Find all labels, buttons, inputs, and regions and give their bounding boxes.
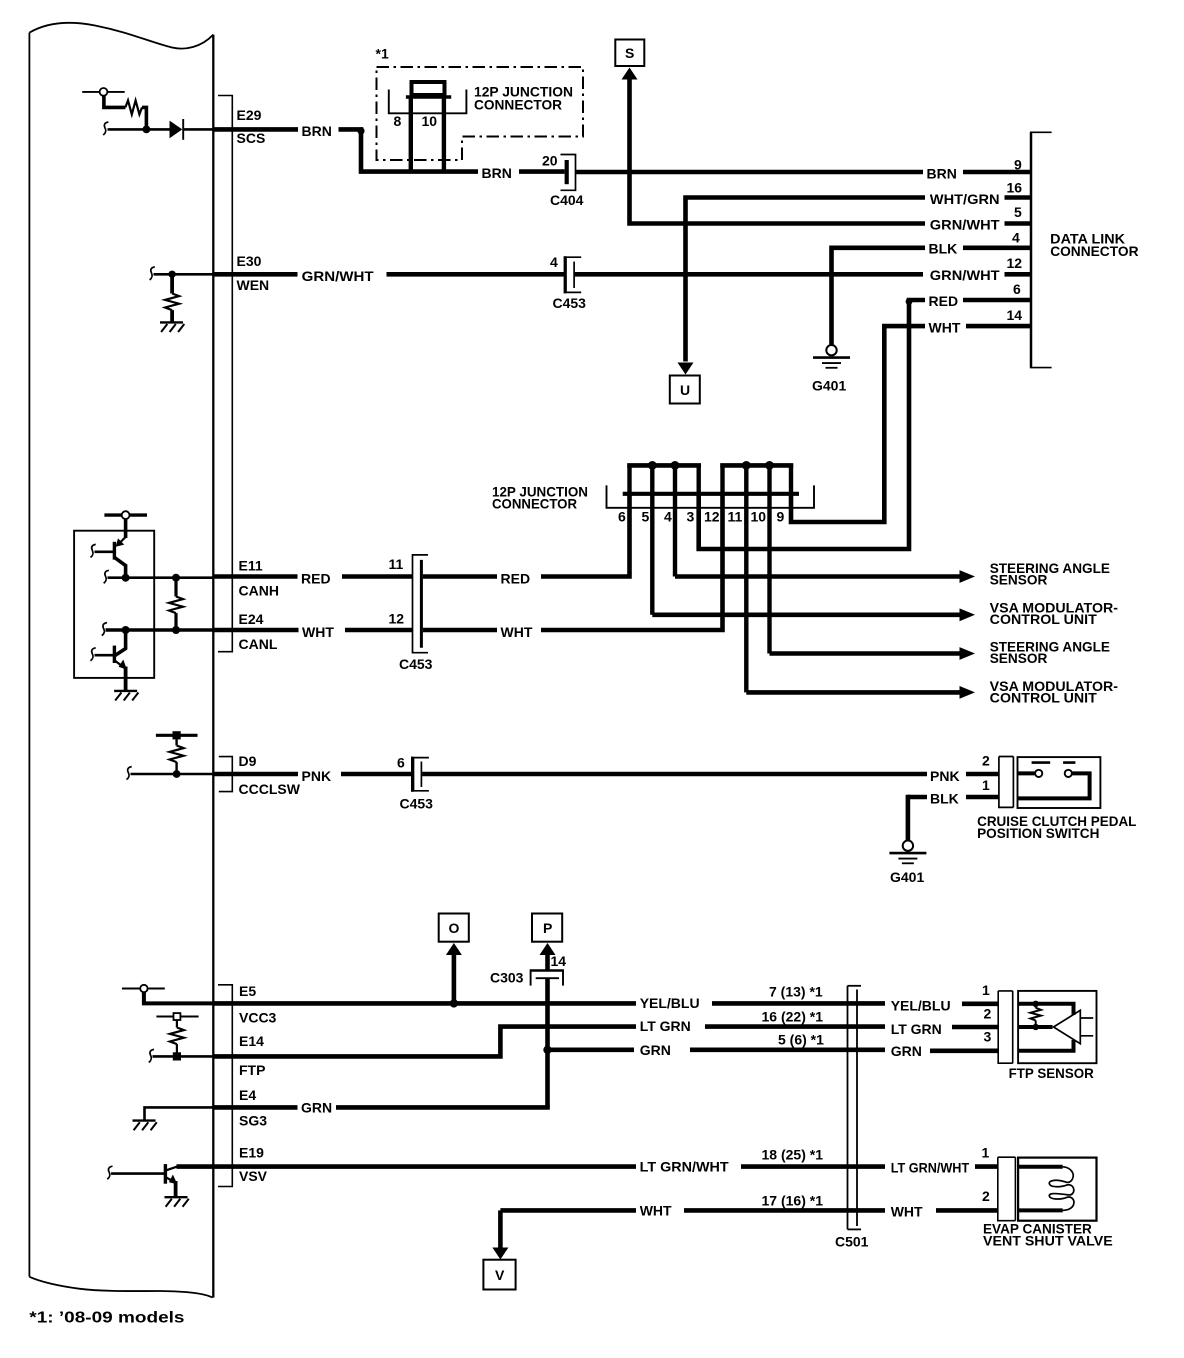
svg-text:G401: G401 [890, 869, 924, 885]
E4 chassis ground [133, 1121, 157, 1131]
label STEERING ANGLE SENSOR 1 [990, 560, 1110, 587]
wire YEL/BLU to FTP sensor pin 1 [962, 1001, 998, 1006]
E19 Q3 collector [166, 1166, 177, 1170]
connector C303 bracket [531, 971, 563, 986]
wire PNK C453 to cruise switch [422, 772, 927, 777]
D9 pull-up resistor upper lead [175, 735, 177, 745]
svg-text:SENSOR: SENSOR [990, 650, 1048, 666]
svg-text:6: 6 [397, 755, 405, 771]
svg-text:18 (25) *1: 18 (25) *1 [762, 1147, 824, 1163]
wire LT GRN/WHT to valve pin 1 [975, 1164, 998, 1169]
switch internal pin1 path [1018, 773, 1090, 798]
svg-text:G401: G401 [812, 378, 846, 394]
svg-text:O: O [449, 920, 460, 936]
E29 internal wire resistor to junction [142, 107, 146, 127]
switch actuator dashes [1032, 761, 1076, 764]
cruise switch inline connector bracket [999, 757, 1014, 808]
bus junction dot pin 10 [765, 461, 774, 470]
CAN termination resistor [169, 597, 183, 614]
connector pin strip segment E29-E24 [218, 96, 232, 652]
EVAP canister vent shut valve box [1018, 1158, 1096, 1221]
svg-text:9: 9 [1014, 157, 1022, 173]
svg-text:LT GRN: LT GRN [891, 1021, 942, 1037]
wire LT GRN to C501 [705, 1024, 885, 1029]
wire GRN from junction to C501 [548, 1048, 886, 1053]
wire GRN/WHT to C453 [387, 272, 566, 277]
connector pin strip segment D9 [219, 757, 233, 792]
svg-text:WHT: WHT [640, 1203, 672, 1219]
wire E24 WHT from block [213, 628, 298, 633]
svg-text:10: 10 [422, 113, 438, 129]
svg-text:YEL/BLU: YEL/BLU [640, 995, 700, 1011]
ECM/PCM block bottom wavy edge [29, 1277, 212, 1298]
CAN Q2 base lead squiggle [91, 648, 96, 661]
valve solenoid coil [1049, 1167, 1074, 1211]
svg-text:VENT SHUT VALVE: VENT SHUT VALVE [983, 1233, 1113, 1249]
CANL termination junction dot [172, 626, 180, 634]
svg-text:WHT: WHT [302, 624, 334, 640]
connector C453 (D9) terminal pin [420, 762, 422, 788]
svg-text:D9: D9 [239, 753, 257, 769]
D9 pull-up resistor [170, 746, 184, 763]
svg-text:17 (16) *1: 17 (16) *1 [762, 1193, 824, 1209]
svg-text:CONTROL UNIT: CONTROL UNIT [990, 611, 1098, 627]
svg-text:1: 1 [982, 982, 990, 998]
E14 internal wire [153, 1055, 214, 1058]
arrow box O [439, 914, 469, 942]
connector C404 terminal bar [565, 160, 569, 184]
ECM/PCM block left wavy edge [28, 33, 30, 1277]
junction bus left (pins 6-3) [627, 463, 701, 468]
CANH termination junction dot [172, 574, 180, 582]
svg-text:POSITION SWITCH: POSITION SWITCH [977, 825, 1099, 841]
12P junction connector (top) prong pin 8 [409, 97, 413, 172]
12P junction connector (middle) body inner bar [623, 492, 799, 496]
svg-text:VSV: VSV [239, 1168, 268, 1184]
label DATA LINK CONNECTOR [1050, 231, 1138, 259]
wire BLK from DLC pin 4 [963, 246, 1031, 251]
FTP sensor amplifier triangle [1054, 1010, 1081, 1043]
E19 Q3 base bar [164, 1164, 167, 1184]
bus junction dot pin 5 [648, 461, 657, 470]
wire P arrow vertical to C303 [545, 953, 550, 971]
ground G401 (cruise switch) [889, 841, 926, 864]
12P junction connector (top) cap [412, 82, 445, 95]
junction pin 12 stub [720, 465, 724, 493]
O arrow junction dot [450, 999, 458, 1007]
svg-text:BLK: BLK [930, 791, 959, 807]
wire WHT to C501 [684, 1208, 885, 1213]
svg-text:11: 11 [728, 509, 743, 525]
wire WHT down to V arrow [498, 1210, 503, 1249]
svg-text:4: 4 [1012, 230, 1020, 246]
CANH junction dot at Q1 [122, 574, 130, 582]
svg-text:6: 6 [618, 509, 626, 525]
connector C404 bracket [561, 155, 576, 191]
junction pin 5 stub and drop [650, 465, 654, 614]
wire RED down to junction pin 3 route [699, 300, 925, 549]
CAN driver supply line with terminal circle [104, 511, 147, 519]
svg-text:SG3: SG3 [239, 1113, 267, 1129]
svg-text:5: 5 [1014, 204, 1022, 220]
svg-text:E30: E30 [237, 253, 262, 269]
arrow box U [670, 376, 700, 404]
svg-text:V: V [495, 1267, 505, 1283]
wire GRN/WHT C453 to DLC [575, 272, 923, 277]
CAN termination resistor lower lead [174, 613, 177, 630]
CAN Q1 emitter arrow into base [116, 537, 126, 547]
wire BRN C404 to DLC [576, 170, 923, 175]
CANL internal wire [106, 628, 214, 632]
pin E5 label [239, 983, 277, 1026]
ECM/PCM block top wavy edge [29, 23, 213, 49]
wire E19 LT GRN/WHT from block [177, 1164, 637, 1169]
junction pin 6 stub [627, 465, 631, 493]
svg-text:CONNECTOR: CONNECTOR [1050, 243, 1138, 259]
CANL junction dot at Q2 [122, 626, 130, 634]
E5 supply line with terminal circle [122, 985, 165, 992]
svg-text:*1: ’08-09 models: *1: ’08-09 models [29, 1310, 184, 1327]
svg-text:BRN: BRN [927, 166, 957, 182]
svg-text:E4: E4 [239, 1087, 256, 1103]
E19 Q3 emitter with arrow [166, 1175, 177, 1185]
FTP sensor internal pin2 rail [1018, 1025, 1052, 1029]
svg-text:BRN: BRN [482, 165, 512, 181]
E5 internal wire from circle [144, 992, 213, 1003]
wire BRN to DLC pin 9 [963, 170, 1031, 175]
arrow to P [540, 943, 556, 955]
12P junction connector (top) cap base line [406, 95, 451, 99]
GRN junction dot [543, 1046, 551, 1054]
bus junction dot pin 11 [742, 461, 751, 470]
wire P vertical C303 to GRN junction [545, 978, 550, 1050]
FTP sensor inline connector [998, 991, 1013, 1063]
pin E11 label [239, 558, 279, 599]
wire WHT to junction pin 12 [541, 494, 723, 630]
svg-text:WHT: WHT [929, 320, 961, 336]
valve internal bottom lead [1018, 1208, 1063, 1212]
svg-text:C453: C453 [400, 796, 434, 812]
svg-text:PNK: PNK [930, 768, 960, 784]
svg-text:LT GRN: LT GRN [640, 1018, 691, 1034]
switch contact right [1065, 770, 1072, 777]
wire RED C453 to label [423, 574, 497, 579]
CANL wire continuation squiggle [102, 623, 107, 636]
CAN upper transistor Q1 (PNP) emitter lead [124, 519, 128, 538]
E30 resistor to ground lead [170, 310, 174, 322]
label STEERING ANGLE SENSOR 2 [990, 639, 1110, 667]
E29 internal wire [108, 128, 170, 131]
junction pin 4 stub and drop [673, 465, 677, 576]
E30 internal wire [154, 273, 214, 276]
svg-text:8: 8 [394, 113, 402, 129]
wire WHT to valve pin 2 [936, 1208, 998, 1213]
svg-text:C453: C453 [399, 656, 433, 672]
svg-text:20: 20 [542, 153, 558, 169]
svg-text:GRN/WHT: GRN/WHT [930, 267, 1000, 283]
wire E11 RED from block [213, 574, 297, 579]
svg-text:VCC3: VCC3 [239, 1010, 277, 1026]
D9 supply junction square dot [173, 731, 181, 739]
pin E14 label [239, 1033, 265, 1078]
wire RED from DLC pin 6 [963, 298, 1031, 303]
arrow to U [678, 363, 694, 375]
junction pin 11 stub and drop [744, 465, 748, 692]
pin E4 label [239, 1087, 267, 1129]
svg-text:GRN/WHT: GRN/WHT [302, 268, 374, 284]
bus junction dot pin 4 [671, 461, 680, 470]
CANH internal wire [108, 576, 214, 579]
svg-text:WHT: WHT [891, 1204, 923, 1220]
svg-text:WEN: WEN [237, 277, 270, 293]
svg-text:E5: E5 [239, 983, 256, 999]
svg-text:*1: *1 [376, 46, 389, 62]
connector C303 top bar [530, 969, 564, 972]
wire O arrow vertical [452, 953, 457, 1003]
svg-text:16 (22) *1: 16 (22) *1 [762, 1009, 824, 1025]
connector C453 (E30) bar with ticks [566, 257, 581, 292]
E29 internal wire from circle to resistor [104, 96, 126, 108]
FTP sensor box [1018, 991, 1096, 1063]
junction pin 9 stub [789, 465, 793, 493]
D9 internal wire [131, 773, 214, 775]
svg-text:S: S [625, 45, 634, 61]
svg-text:E29: E29 [237, 107, 262, 123]
arrow to O [446, 943, 462, 955]
svg-text:BRN: BRN [302, 123, 332, 139]
connector C453 (E11/E24) bracket [413, 555, 429, 653]
E14 junction square dot [173, 1052, 181, 1060]
CAN Q2 base bar [113, 646, 116, 663]
wire D9 PNK from block [213, 772, 298, 777]
E19 chassis ground [165, 1197, 189, 1207]
arrow box V [483, 1260, 515, 1290]
CAN driver IC box [74, 531, 154, 678]
connector pin strip segment E5-E19 [218, 985, 232, 1187]
wire E14 LT GRN from block [213, 1027, 636, 1057]
label VSA MODULATOR-CONTROL UNIT 1 [990, 600, 1119, 627]
wire E29 BRN from block to corner [213, 127, 298, 132]
svg-text:E14: E14 [239, 1033, 264, 1049]
svg-text:12: 12 [1007, 255, 1023, 271]
svg-text:4: 4 [664, 509, 672, 525]
wire PNK to C453 [341, 772, 412, 777]
svg-text:E24: E24 [239, 611, 264, 627]
E14 pull-up resistor lower lead [176, 1044, 178, 1056]
junction pin 10 stub and drop [767, 465, 771, 653]
arrow box S [615, 40, 644, 67]
D9 wire continuation squiggle [127, 767, 132, 780]
svg-text:CONNECTOR: CONNECTOR [474, 96, 562, 112]
pin E24 label [239, 611, 278, 652]
svg-text:C453: C453 [553, 295, 587, 311]
arrow to S [622, 68, 638, 80]
wire GRN/WHT to DLC pin 5 [1005, 221, 1032, 226]
CAN Q1 base lead squiggle [91, 544, 96, 557]
svg-text:E19: E19 [239, 1145, 264, 1161]
E30 pull-down resistor lead [170, 274, 174, 293]
svg-text:WHT: WHT [501, 624, 533, 640]
svg-text:3: 3 [687, 509, 695, 525]
wire E4 GRN from block [213, 1105, 297, 1110]
label 12P JUNCTION CONNECTOR (middle) [492, 484, 588, 512]
svg-text:3: 3 [984, 1029, 992, 1045]
svg-text:GRN/WHT: GRN/WHT [930, 217, 1000, 233]
svg-text:RED: RED [501, 571, 531, 587]
wire BLK to ground [832, 248, 926, 345]
wire BLK from ground corner [908, 795, 927, 800]
svg-text:4: 4 [550, 254, 558, 270]
wire BLK to switch pin 1 [966, 795, 999, 800]
E14 supply line with terminal circle [156, 1013, 198, 1020]
svg-text:14: 14 [551, 953, 567, 969]
CAN lower transistor Q2 (NPN) collector lead [115, 630, 126, 656]
svg-text:CONTROL UNIT: CONTROL UNIT [990, 690, 1098, 706]
E29 junction dot [143, 125, 151, 133]
E30 pull-down resistor [165, 294, 179, 311]
CANH wire continuation squiggle [104, 570, 109, 583]
wire PNK to switch pin 2 [966, 772, 999, 777]
E14 wire continuation squiggle [149, 1049, 154, 1062]
wire GRN/WHT from S arrow down to DLC row [630, 78, 926, 224]
E14 pull-up resistor [170, 1028, 184, 1045]
wire GRN to P vertical [336, 1105, 550, 1110]
svg-text:RED: RED [301, 571, 331, 587]
wire GRN to FTP sensor pin 3 [930, 1049, 998, 1054]
cruise clutch pedal position switch box [1018, 757, 1101, 808]
E4 internal wire to ground [145, 1107, 214, 1120]
svg-text:SENSOR: SENSOR [990, 571, 1048, 587]
wire BRN to C404 [519, 169, 565, 174]
connector C453 (D9) bracket ticks [414, 758, 429, 791]
connector C303 terminal bar [536, 977, 559, 979]
svg-text:12: 12 [389, 611, 405, 627]
wire RED to junction pin 6 [541, 494, 630, 577]
FTP sensor internal resistor top dot [1033, 1001, 1039, 1007]
wire E5 YEL/BLU from block [213, 1001, 636, 1006]
svg-text:CANH: CANH [239, 583, 279, 599]
D9 supply rail bar [156, 734, 198, 737]
CAN Q2 emitter with arrow [115, 660, 127, 670]
svg-text:C303: C303 [490, 970, 524, 986]
svg-text:CONNECTOR: CONNECTOR [492, 496, 577, 512]
wire YEL/BLU to C501 [712, 1001, 885, 1006]
E30 junction dot [168, 271, 175, 278]
connector C453 (D9) full bar [411, 757, 414, 792]
svg-text:7 (13) *1: 7 (13) *1 [769, 984, 823, 1000]
wire P vertical junction to E4 row [545, 1050, 550, 1108]
12P junction connector (top) dash-dot outline [377, 67, 584, 160]
wire RED corner dot [906, 298, 913, 305]
wire LT GRN/WHT to C501 [741, 1164, 885, 1169]
D9 junction dot [173, 770, 181, 778]
svg-text:1: 1 [982, 1145, 990, 1161]
FTP sensor internal resistor bottom dot [1033, 1024, 1039, 1030]
svg-text:YEL/BLU: YEL/BLU [891, 998, 951, 1014]
svg-text:1: 1 [982, 777, 990, 793]
connector C453 (E30) full bar [564, 256, 567, 293]
svg-text:2: 2 [982, 753, 990, 769]
CAN Q1 base lead [95, 550, 114, 553]
E14 pull-up resistor upper lead [176, 1020, 178, 1028]
svg-text:2: 2 [982, 1188, 990, 1204]
connector C501 [848, 986, 862, 1230]
wire BLK down to ground [906, 795, 911, 841]
CAN Q2 base lead [95, 654, 114, 657]
label VSA MODULATOR-CONTROL UNIT 2 [990, 678, 1119, 706]
arrow to V [492, 1248, 508, 1260]
ground G401 (data link) [813, 345, 850, 368]
junction pin 3 stub [697, 465, 701, 493]
svg-text:SCS: SCS [237, 130, 266, 146]
E29 wire continuation squiggle [103, 122, 108, 135]
svg-text:C501: C501 [835, 1234, 869, 1250]
svg-text:10: 10 [751, 509, 767, 525]
wire pin 11 to VSA modulator arrow [746, 686, 975, 699]
svg-text:U: U [680, 382, 690, 398]
12P junction connector (top) prong pin 10 [442, 97, 446, 172]
pin E19 label [239, 1145, 268, 1185]
svg-text:CANL: CANL [239, 636, 278, 652]
svg-text:14: 14 [1007, 307, 1023, 323]
data link connector bracket [1030, 132, 1052, 367]
E29 internal resistor [125, 100, 142, 114]
12P junction connector (middle) body lower line [607, 485, 815, 507]
E19 Q3 emitter to ground lead [174, 1181, 178, 1197]
label EVAP CANISTER VENT SHUT VALVE [983, 1221, 1113, 1249]
svg-text:12: 12 [704, 509, 720, 525]
FTP sensor internal bottom rail [1018, 1040, 1073, 1051]
pin D9 label [239, 753, 301, 797]
switch internal pin2 lead [1018, 771, 1035, 775]
svg-text:GRN: GRN [301, 1100, 332, 1116]
svg-text:LT GRN/WHT: LT GRN/WHT [640, 1159, 729, 1175]
CAN Q1 base bar [113, 542, 116, 560]
connector C453 (E30) terminal pin [573, 262, 575, 288]
svg-text:WHT/GRN: WHT/GRN [930, 191, 1000, 207]
svg-text:5: 5 [642, 509, 650, 525]
svg-text:BLK: BLK [929, 241, 958, 257]
E30 chassis ground [160, 322, 184, 332]
svg-text:GRN: GRN [891, 1043, 922, 1059]
svg-text:CCCLSW: CCCLSW [239, 781, 301, 797]
FTP sensor internal resistor [1030, 1004, 1041, 1027]
BRN corner dot [357, 127, 364, 134]
svg-text:2: 2 [984, 1006, 992, 1022]
E29 internal pull-up circuit: supply line with terminal circle [82, 88, 125, 96]
diode on E29 line [170, 119, 184, 140]
svg-text:PNK: PNK [302, 768, 332, 784]
E19 transistor Q3 base lead [111, 1172, 164, 1175]
arrow box P [532, 914, 562, 942]
D9 pull-up resistor lower lead [175, 762, 177, 774]
12P junction connector (top) bracket [389, 90, 467, 114]
wire pin 4 to steering angle sensor arrow [675, 570, 975, 583]
svg-text:P: P [543, 920, 552, 936]
wire WHT C453 to label [423, 628, 497, 633]
wire RED to C453 [342, 574, 413, 579]
wire pin 5 to VSA modulator arrow [652, 608, 975, 621]
svg-text:FTP SENSOR: FTP SENSOR [1009, 1065, 1094, 1081]
FTP sensor internal top rail [1018, 1004, 1073, 1015]
wire WHT/GRN to U arrow [686, 198, 926, 362]
wire LT GRN to FTP sensor pin 2 [952, 1025, 998, 1030]
CAN termination resistor upper lead [174, 578, 177, 597]
svg-text:11: 11 [389, 556, 404, 572]
valve internal top lead [1018, 1165, 1063, 1169]
EVAP valve inline connector [998, 1157, 1016, 1221]
CAN Q1 collector [115, 558, 126, 578]
